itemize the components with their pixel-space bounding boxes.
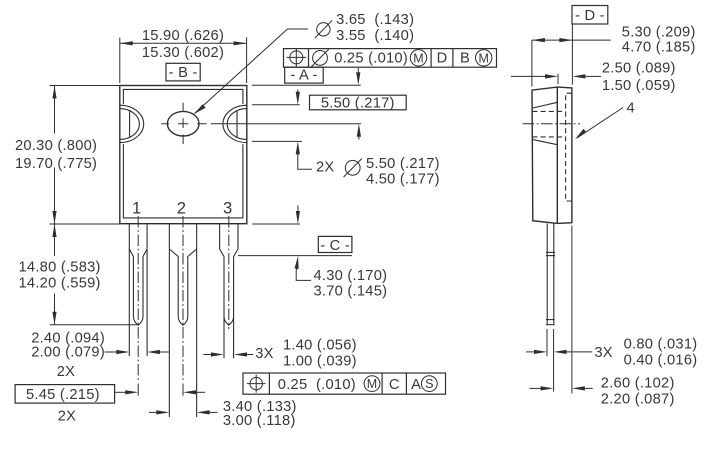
side left extension line — [531, 40, 533, 87]
svg-text:2X: 2X — [58, 409, 76, 425]
svg-text:20.30 (.800): 20.30 (.800) — [15, 138, 97, 154]
svg-text:0.40 (.016): 0.40 (.016) — [624, 353, 698, 369]
svg-text:3.70 (.145): 3.70 (.145) — [314, 284, 388, 300]
dimension 2.50/1.50 tab thickness — [511, 60, 676, 94]
dimension 14.80/14.20 lead length — [19, 224, 139, 325]
notch top extension line — [252, 104, 300, 106]
datum B box — [166, 63, 200, 81]
dimension 2X dia 5.50/4.50 side notches — [296, 90, 440, 188]
svg-text:2.00 (.079): 2.00 (.079) — [31, 345, 105, 361]
datum D extension line — [571, 24, 573, 85]
datum D box — [572, 6, 608, 25]
right side notch — [223, 105, 247, 142]
svg-text:14.80 (.583): 14.80 (.583) — [19, 259, 101, 275]
svg-text:0.25 (.010): 0.25 (.010) — [278, 377, 356, 393]
dimension 2.40/2.00 lead width pins 1,3 — [31, 330, 169, 380]
notch bottom extension line — [252, 140, 302, 142]
svg-text:2.50 (.089): 2.50 (.089) — [602, 60, 676, 76]
svg-text:1.00 (.039): 1.00 (.039) — [283, 354, 357, 370]
svg-text:2: 2 — [177, 199, 186, 218]
tab face extension stub — [557, 74, 559, 84]
svg-text:15.30 (.602): 15.30 (.602) — [142, 45, 224, 61]
svg-text:- B -: - B - — [169, 65, 198, 81]
side view chamfer lines — [532, 102, 557, 144]
svg-text:M: M — [478, 51, 488, 65]
dimension 20.30/19.70 body height — [15, 86, 120, 225]
pin 2 — [169, 224, 196, 417]
boxed basic dimension 5.50 — [310, 68, 407, 140]
svg-text:4: 4 — [627, 100, 635, 116]
pin number labels — [132, 199, 232, 218]
svg-text:1: 1 — [132, 199, 141, 218]
svg-text:5.45 (.215): 5.45 (.215) — [26, 387, 100, 403]
svg-text:19.70 (.775): 19.70 (.775) — [15, 156, 97, 172]
datum A box — [285, 67, 324, 83]
pin 2 centerline — [182, 216, 184, 381]
front view body outer outline — [120, 86, 247, 224]
svg-text:3.55 (.140): 3.55 (.140) — [336, 28, 414, 44]
side view hidden tab outline — [566, 93, 573, 201]
svg-text:5.30 (.209): 5.30 (.209) — [622, 24, 696, 40]
svg-text:- A -: - A - — [290, 68, 317, 84]
svg-text:3.65 (.143): 3.65 (.143) — [336, 12, 414, 28]
svg-text:A: A — [411, 377, 421, 393]
svg-text:M: M — [413, 51, 423, 65]
svg-text:15.90 (.626): 15.90 (.626) — [142, 28, 224, 44]
pin 3 centerline — [228, 216, 230, 329]
feature control frame bottom: position 0.25 M C A S — [243, 373, 446, 394]
dimension 3.40/3.00 center lead width — [149, 399, 297, 429]
svg-text:4.70 (.185): 4.70 (.185) — [622, 40, 696, 56]
svg-text:3: 3 — [223, 199, 232, 218]
svg-text:3.00 (.118): 3.00 (.118) — [223, 413, 296, 429]
pin 1 centerline — [137, 216, 139, 381]
side view hidden hole lines — [532, 111, 565, 136]
svg-text:4.50 (.177): 4.50 (.177) — [366, 171, 440, 187]
body top edge extension line — [252, 84, 361, 86]
dimension 3X 1.40/1.00 lead tip width — [203, 337, 356, 369]
svg-text:1.50 (.059): 1.50 (.059) — [602, 78, 676, 94]
leader 4 metal tab — [575, 100, 635, 139]
svg-text:3X: 3X — [594, 345, 612, 361]
dimension 2.60/2.20 lead offset — [530, 376, 675, 408]
svg-text:2X: 2X — [316, 160, 334, 176]
datum D long extension line — [571, 226, 573, 394]
svg-text:0.80 (.031): 0.80 (.031) — [624, 337, 698, 353]
pin 1 — [129, 224, 147, 356]
dimension 15.90/15.30 top width — [120, 28, 247, 83]
svg-text:1.40 (.056): 1.40 (.056) — [283, 337, 357, 353]
lead thickness extension lines — [547, 329, 554, 392]
svg-text:3X: 3X — [255, 346, 273, 362]
svg-text:M: M — [367, 377, 377, 391]
dimension 3X 0.80/0.40 lead thickness — [526, 337, 697, 369]
svg-text:0.25 (.010): 0.25 (.010) — [334, 51, 408, 67]
svg-text:14.20 (.559): 14.20 (.559) — [19, 276, 101, 292]
svg-text:S: S — [425, 377, 433, 391]
svg-text:B: B — [460, 51, 470, 67]
side view lead — [546, 223, 555, 324]
feature control frame top: position dia 0.25 M D B M — [284, 49, 497, 68]
svg-text:- C -: - C - — [320, 238, 350, 254]
dimension 5.30/4.70 overall thickness — [532, 24, 696, 55]
svg-text:D: D — [437, 51, 448, 67]
dimension 5.45 boxed lead pitch — [15, 385, 205, 425]
svg-text:4.30 (.170): 4.30 (.170) — [314, 268, 388, 284]
svg-text:5.50 (.217): 5.50 (.217) — [321, 95, 395, 111]
dimension 4.30/3.70 shoulder length — [295, 206, 388, 300]
front view body inner outline — [123, 89, 242, 218]
side view centerline — [523, 123, 581, 125]
svg-text:- D -: - D - — [575, 8, 605, 24]
hole diameter leader and text 3.65/3.55 — [194, 12, 414, 114]
left side notch — [120, 105, 144, 142]
hole center extension line — [211, 123, 361, 125]
mounting hole — [161, 103, 207, 144]
pin 3 — [220, 224, 238, 358]
svg-text:2X: 2X — [57, 364, 75, 380]
svg-text:2.60 (.102): 2.60 (.102) — [601, 376, 675, 392]
body bottom edge extension line right — [252, 223, 300, 225]
svg-text:2.20 (.087): 2.20 (.087) — [601, 392, 675, 408]
svg-text:5.50 (.217): 5.50 (.217) — [366, 156, 440, 172]
side view outline — [532, 87, 572, 223]
svg-text:C: C — [389, 377, 400, 393]
datum C box — [318, 236, 352, 253]
lead shoulder extension line with datum C — [238, 255, 352, 257]
